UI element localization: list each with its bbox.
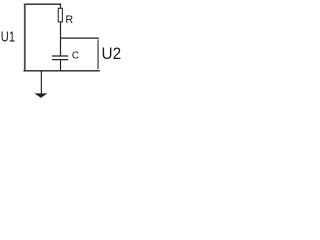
svg-text:R: R — [65, 14, 73, 26]
svg-text:C: C — [72, 50, 80, 62]
svg-text:U1: U1 — [1, 29, 15, 46]
svg-text:U2: U2 — [102, 45, 122, 63]
